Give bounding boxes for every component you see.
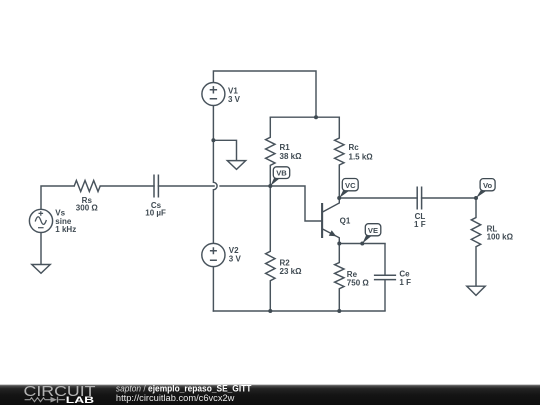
voltage source V2 — [202, 243, 225, 266]
junction dot bias rail — [314, 115, 318, 119]
label R1 38 kohm — [280, 143, 303, 161]
resistor Re — [335, 244, 344, 312]
label V1 3 V — [228, 86, 241, 103]
wire V1 ground branch — [213, 140, 236, 160]
wire Rs to Cs — [100, 185, 154, 187]
svg-text:38 kΩ: 38 kΩ — [280, 152, 303, 161]
label Rc 1.5 kohm — [349, 143, 374, 161]
svg-text:100 kΩ: 100 kΩ — [487, 233, 514, 242]
svg-text:1.5 kΩ: 1.5 kΩ — [349, 152, 374, 161]
label RL 100 kohm — [487, 225, 514, 242]
resistor Rc — [335, 117, 344, 198]
wire emitter junction to VE to Ce — [339, 243, 385, 245]
label Cs 10 uF — [145, 201, 166, 218]
label R2 23 kohm — [280, 258, 303, 276]
CircuitLab logo circuit glyph (resistor + diode) — [25, 397, 65, 403]
ground (RL) — [467, 286, 485, 295]
svg-text:Q1: Q1 — [340, 217, 351, 226]
footer bar — [0, 385, 540, 405]
svg-text:LAB: LAB — [66, 395, 95, 405]
svg-text:Rc: Rc — [349, 143, 360, 152]
svg-text:300 Ω: 300 Ω — [76, 204, 99, 213]
label Re 750 ohm — [347, 270, 370, 288]
wire bias rail R1 to Rc — [270, 116, 339, 118]
node VE junction dot — [360, 242, 364, 246]
label Vs sine 1 kHz — [55, 209, 76, 235]
resistor Rs — [74, 181, 100, 192]
svg-text:10 µF: 10 µF — [145, 209, 166, 218]
wire V2 minus to bottom rail — [212, 267, 214, 311]
ground (Vs) — [32, 265, 50, 274]
svg-text:1 kHz: 1 kHz — [55, 225, 76, 234]
node label VB — [270, 167, 289, 186]
node Vo junction dot — [474, 196, 478, 200]
wire Vs top to Rs — [41, 186, 74, 209]
voltage source V1 — [202, 83, 225, 106]
svg-text:http://circuitlab.com/c6vcx2w: http://circuitlab.com/c6vcx2w — [116, 393, 235, 403]
capacitor Ce — [374, 244, 396, 312]
label Rs 300 ohm — [76, 196, 99, 213]
node label VC — [339, 179, 358, 198]
svg-text:VE: VE — [368, 226, 378, 235]
svg-text:R1: R1 — [280, 143, 291, 152]
transistor Q1 (NPN) — [322, 198, 339, 244]
node label VE — [362, 224, 380, 244]
svg-text:1 F: 1 F — [414, 220, 426, 229]
voltage source Vs (sine) — [29, 209, 52, 232]
wire V1 top to bias rail — [213, 71, 316, 117]
wire V1 minus down to V2 plus (with hop over signal wire) — [213, 105, 217, 243]
wire bottom rail — [213, 310, 385, 312]
wire node VC to CL — [339, 197, 417, 199]
junction dot R2 bottom rail — [268, 309, 272, 313]
svg-text:23 kΩ: 23 kΩ — [280, 267, 303, 276]
svg-text:1 F: 1 F — [399, 278, 411, 287]
junction dot emitter — [337, 242, 341, 246]
junction dot V1 ground tee — [211, 138, 215, 142]
capacitor CL — [417, 187, 421, 210]
node VC junction dot — [337, 196, 341, 200]
label CL 1 F — [414, 212, 426, 229]
resistor RL — [471, 198, 480, 286]
node VB junction dot — [268, 184, 272, 188]
wire node VB to Q1 base — [270, 186, 321, 221]
wire Vs bottom to ground — [40, 233, 42, 265]
junction dot Re bottom rail — [337, 309, 341, 313]
svg-text:3 V: 3 V — [228, 95, 241, 104]
svg-text:Vo: Vo — [483, 181, 493, 190]
resistor R2 — [266, 186, 275, 311]
svg-text:VC: VC — [345, 181, 356, 190]
wire hop underlay (gap in signal wire at crossover) — [213, 182, 217, 189]
wire CL to node Vo — [422, 197, 476, 199]
svg-text:VB: VB — [276, 169, 287, 178]
label Ce 1 F — [399, 270, 411, 287]
svg-text:750 Ω: 750 Ω — [347, 279, 370, 288]
svg-text:3 V: 3 V — [229, 254, 242, 263]
label V2 3 V — [229, 246, 242, 263]
node label Vo — [476, 179, 495, 198]
ground (V1) — [227, 161, 245, 170]
capacitor Cs — [154, 175, 158, 198]
wire Cs to node VB — [158, 185, 270, 187]
label Q1 — [340, 217, 351, 226]
resistor R1 — [266, 117, 275, 186]
